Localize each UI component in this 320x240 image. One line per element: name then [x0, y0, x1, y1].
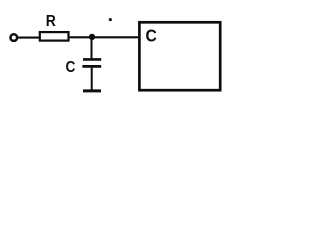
svg-text:C: C: [146, 27, 157, 46]
resistor R: [40, 32, 69, 41]
capacitor C bottom plate: [82, 65, 101, 68]
wire resistor to box: [70, 36, 139, 38]
IC box: [139, 22, 220, 90]
input terminal: [11, 34, 18, 41]
wire junction down to capacitor: [91, 37, 93, 59]
stray ink dot: [109, 18, 112, 21]
wire terminal to resistor: [18, 37, 40, 39]
ground bar: [83, 89, 101, 92]
svg-text:C: C: [66, 59, 76, 76]
capacitor C top plate: [83, 58, 101, 61]
svg-text:R: R: [46, 12, 56, 30]
wire capacitor to ground bar: [91, 68, 93, 91]
node junction: [89, 34, 94, 39]
